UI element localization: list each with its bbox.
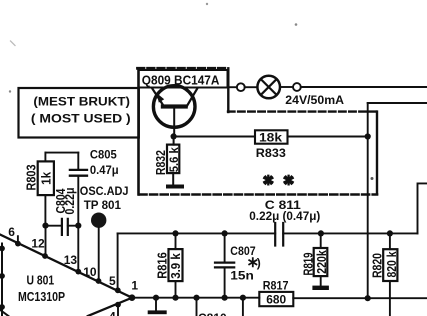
junction rail/supply	[365, 295, 371, 301]
svg-text:TP 801: TP 801	[84, 198, 122, 212]
svg-text:R820: R820	[370, 253, 385, 278]
note asterisk 2	[285, 176, 293, 185]
junction R816/rail	[172, 230, 178, 236]
junction R803/C804	[42, 223, 48, 229]
wire top right corner	[368, 102, 427, 104]
svg-text:MC1310P: MC1310P	[18, 289, 65, 304]
base lead	[173, 109, 175, 137]
pin 12	[31, 236, 48, 259]
junction rail/C807	[222, 295, 228, 301]
svg-text:1: 1	[131, 278, 138, 292]
IC U801 MC1310P	[0, 235, 135, 316]
svg-text:6: 6	[8, 225, 15, 239]
wire base to R833	[174, 136, 255, 138]
junction C805/C804	[75, 223, 81, 229]
pin 4	[109, 302, 121, 316]
svg-text:5: 5	[109, 274, 116, 288]
wire	[245, 86, 258, 88]
resistor R832 5.6k	[153, 136, 181, 184]
wire branch down	[242, 298, 244, 316]
svg-text:18k: 18k	[259, 130, 282, 144]
resistor R803 1k	[23, 153, 54, 226]
junction rail/ground branch	[153, 295, 159, 301]
wire branch C810	[196, 298, 198, 316]
pin 13	[64, 253, 81, 275]
corner wire bottom left	[0, 310, 8, 316]
test point TP801	[80, 184, 129, 281]
wire to right edge	[301, 86, 427, 88]
wire R833 to supply	[288, 136, 368, 138]
note asterisk C807	[249, 256, 261, 270]
wire R803 to pin 12	[45, 226, 47, 256]
junction R833/supply	[365, 133, 371, 139]
terminal circle left	[237, 83, 245, 91]
wire pin5 drop	[117, 233, 119, 290]
svg-text:0.47μ: 0.47μ	[90, 163, 119, 177]
terminal circle right	[293, 83, 301, 91]
pin 10	[83, 265, 101, 284]
base bar	[161, 104, 188, 108]
svg-text:C807: C807	[230, 244, 256, 258]
wire pin1 output rail	[132, 297, 259, 299]
capacitor C811	[275, 223, 283, 246]
annotation box (MEST BRUKT / MOST USED)	[19, 88, 139, 138]
ground bar	[148, 310, 167, 314]
note asterisk 1	[264, 176, 272, 185]
scan speck	[9, 90, 11, 92]
junction rail/branch C810	[193, 295, 199, 301]
wire mid rail corner to right edge	[418, 183, 427, 233]
junction R819/rail	[318, 230, 324, 236]
scan speck	[295, 23, 298, 26]
junction R820/rail	[387, 230, 393, 236]
svg-text:24V/50mA: 24V/50mA	[285, 93, 344, 107]
svg-text:R817: R817	[263, 278, 289, 292]
svg-text:R803: R803	[23, 165, 38, 191]
svg-text:R833: R833	[256, 146, 286, 160]
collector lead	[187, 89, 197, 107]
scan speck	[206, 3, 208, 5]
svg-text:820 k: 820 k	[385, 251, 399, 278]
svg-text:( MOST USED ): ( MOST USED )	[31, 111, 131, 125]
svg-text:10: 10	[83, 265, 97, 279]
junction base node	[171, 133, 177, 139]
svg-text:220k: 220k	[315, 249, 329, 273]
resistor R816 3.9k	[154, 233, 183, 297]
svg-text:5.6 k: 5.6 k	[167, 147, 181, 172]
resistor R833 18k	[255, 130, 288, 160]
scan speck	[11, 41, 16, 46]
svg-text:C805: C805	[90, 147, 117, 161]
wire R803/C805 top rail	[46, 152, 79, 154]
emitter lead with arrow	[152, 89, 164, 107]
svg-text:1k: 1k	[39, 171, 54, 185]
dashed selection box	[138, 68, 378, 194]
svg-text:4: 4	[109, 310, 116, 316]
wire	[280, 86, 293, 88]
wire C805 to pin 13	[77, 226, 79, 272]
transistor label box Q809 BC147A	[139, 70, 228, 88]
svg-text:3.9 k: 3.9 k	[169, 252, 183, 278]
wire output rail right	[293, 297, 427, 299]
junction rail/R816	[172, 295, 178, 301]
svg-text:U 801: U 801	[27, 272, 55, 287]
pin 5	[109, 274, 121, 293]
ground bar under R819	[312, 286, 329, 290]
svg-text:680: 680	[266, 292, 286, 306]
svg-text:(MEST BRUKT): (MEST BRUKT)	[33, 95, 130, 109]
svg-text:): )	[257, 256, 261, 270]
resistor R820 820k	[370, 233, 400, 316]
svg-text:R816: R816	[154, 252, 169, 279]
capacitor C807 15n	[215, 233, 256, 297]
resistor R819 220k	[300, 233, 329, 285]
capacitor C805 0.47u	[70, 147, 119, 225]
svg-text:0.22μ (0.47μ): 0.22μ (0.47μ)	[249, 209, 320, 223]
ground bar under R832	[166, 185, 184, 189]
capacitor C804 0.22u	[46, 188, 79, 235]
wire mid rail left	[118, 232, 276, 234]
svg-text:13: 13	[64, 253, 78, 267]
junction C807/rail	[222, 230, 228, 236]
resistor R817 680	[259, 278, 293, 306]
svg-text:15n: 15n	[230, 268, 254, 282]
svg-text:C810: C810	[198, 311, 227, 316]
svg-text:R819: R819	[300, 253, 315, 276]
svg-text:R832: R832	[153, 150, 168, 175]
transistor Q809	[152, 86, 197, 137]
junction rail/branch	[240, 295, 246, 301]
svg-text:OSC.ADJ: OSC.ADJ	[80, 184, 129, 198]
svg-text:12: 12	[31, 236, 45, 250]
ground branch	[155, 298, 157, 311]
left edge bus wire	[0, 244, 5, 316]
wire lamp rail	[228, 86, 237, 88]
pin 6	[8, 225, 21, 246]
svg-text:0.22μ: 0.22μ	[63, 188, 77, 215]
scan speck	[371, 177, 374, 180]
wire vertical supply	[367, 103, 369, 298]
wire mid rail right	[283, 232, 417, 234]
lamp 24V/50mA	[257, 76, 280, 99]
